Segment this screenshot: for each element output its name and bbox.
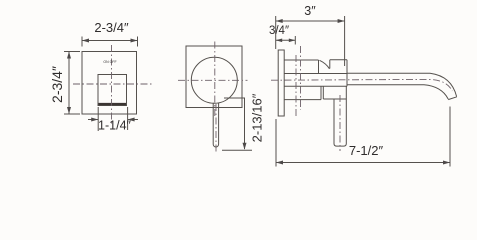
svg-text:1-1/4″: 1-1/4″ [98,119,131,133]
svg-text:7-1/2″: 7-1/2″ [349,143,384,158]
svg-text:3/4″: 3/4″ [269,25,289,37]
svg-text:2-3/4″: 2-3/4″ [49,66,65,103]
svg-text:ON OFF: ON OFF [103,60,116,64]
svg-text:2-3/4″: 2-3/4″ [94,20,129,35]
svg-text:3″: 3″ [304,4,316,18]
svg-text:2-13/16″: 2-13/16″ [250,93,265,142]
